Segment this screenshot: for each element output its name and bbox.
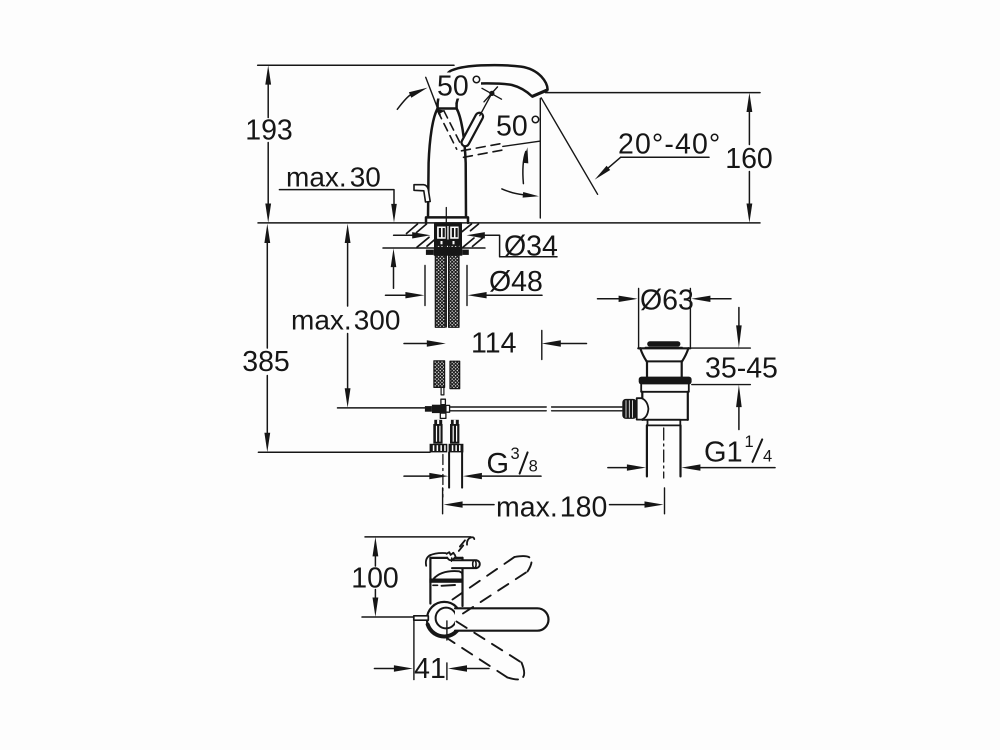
dimension max.300 vertical line [347, 241, 349, 390]
dimension max.180 [442, 488, 444, 514]
svg-text:193: 193 [245, 115, 293, 147]
drain upper body [646, 361, 648, 376]
drain main body [641, 392, 643, 420]
dimension 160 top arrow [747, 93, 753, 112]
braided hose left [435, 241, 445, 328]
spout [438, 65, 548, 103]
horizontal pop-up rod [450, 407, 622, 411]
pop-up tee bottom stub [440, 413, 446, 418]
handle lever [462, 113, 484, 147]
hose connector crimp right [451, 420, 459, 424]
faucet base flange [426, 217, 468, 223]
svg-text:385: 385 [242, 346, 290, 378]
dimension max.300 top arrow [345, 224, 351, 243]
dimension Ø63 [638, 289, 640, 349]
faucet body outline [426, 103, 468, 223]
drain o-ring [639, 377, 692, 385]
axis cross mark [482, 88, 502, 99]
pop-up tee right face [446, 405, 450, 412]
threaded shank outline [435, 223, 461, 248]
reference line top (193 upper datum) [258, 64, 454, 66]
rod-level reference line (max.300 lower datum) [338, 407, 426, 409]
plan lever base notch [447, 558, 455, 561]
faucet collar line [438, 107, 457, 110]
dimension 385 bottom arrow [264, 433, 270, 452]
shank lower dark band [435, 240, 461, 246]
plan lever dashed down-right [445, 622, 525, 680]
plan lever solid [455, 608, 549, 630]
svg-text:114: 114 [471, 328, 517, 360]
dimension max.30 down arrow [391, 204, 397, 223]
svg-text:100: 100 [351, 562, 399, 594]
svg-text:1: 1 [745, 433, 754, 451]
shank fitting right [449, 226, 459, 240]
dimension 193 vertical line [267, 82, 269, 205]
dimension 41 [413, 621, 415, 680]
escutcheon outer circle [427, 602, 462, 637]
35-45 upper extension line [690, 347, 750, 349]
drain ring band [641, 384, 689, 391]
dimension G1 1/4 [608, 467, 628, 469]
svg-text:35-45: 35-45 [705, 353, 778, 385]
spout swivel arc arrow [502, 189, 524, 195]
shank fitting left [436, 226, 446, 240]
dashed handle position inside body [438, 111, 462, 149]
spout swung position line [541, 98, 597, 195]
G3/8 threaded tube [448, 452, 450, 487]
dimension 160 vertical line [748, 110, 750, 206]
deck underside line [383, 247, 485, 249]
hose stub left (after break) [434, 361, 445, 388]
dimension 160 bottom arrow [747, 204, 753, 223]
pop-up tee top stub [441, 399, 446, 405]
leader arrow 20-40 [595, 166, 611, 180]
label 50 degrees first halo [436, 73, 481, 99]
hose-end reference line (385 lower datum) [258, 451, 430, 453]
pop-up rod lever at body [414, 185, 430, 202]
handle axis line [480, 92, 493, 116]
max.30 reference line [279, 190, 394, 206]
shank centre dip tube [445, 226, 447, 327]
dimension 193 bottom arrow [265, 204, 271, 223]
dimension 100 bottom arrow [373, 598, 379, 618]
dimension G3/8 arrows [404, 475, 430, 477]
plan dome arc [434, 571, 462, 579]
plan left tab [414, 616, 429, 620]
plan view: 100 upper reference line [365, 536, 471, 538]
dimension 385 top arrow [264, 224, 270, 243]
drain body bottom lip [642, 419, 688, 421]
dimension 100 top arrow [373, 537, 379, 557]
svg-text:max.30: max.30 [286, 162, 381, 193]
leader line 20-40 [621, 156, 709, 158]
drain plug knob [647, 341, 680, 346]
plan dark band [429, 579, 462, 583]
svg-text:Ø63: Ø63 [640, 284, 694, 316]
dimension Ø34 [394, 234, 413, 236]
plan lever dashed up-right [453, 556, 532, 613]
svg-text:G1: G1 [704, 437, 743, 469]
dimension Ø48 [424, 266, 426, 306]
svg-text:160: 160 [725, 143, 773, 175]
dimension 35-45 [692, 384, 751, 386]
handle swing arc arrow [523, 152, 526, 184]
stub tail rod [441, 387, 444, 395]
base centerline [445, 208, 447, 227]
deck / countertop line [258, 222, 760, 224]
svg-text:8: 8 [529, 458, 538, 476]
spout axis vertical line [539, 99, 541, 218]
svg-text:max.300: max.300 [291, 305, 400, 336]
rod boss [637, 398, 649, 419]
knurled rod knob [622, 399, 636, 419]
svg-text:20°-40°: 20°-40° [618, 129, 721, 161]
spout-tip datum line (160 upper) [546, 92, 761, 94]
drain neck [640, 348, 646, 361]
50 degree curved leader [397, 94, 411, 109]
escutcheon inner circle [436, 608, 457, 629]
plan spout body [430, 558, 462, 606]
drain tailpipe [646, 425, 648, 476]
escutcheon thick bottom arc [428, 624, 461, 637]
shank top dark band [435, 223, 461, 226]
union nut right [449, 444, 464, 453]
dark wedge under collar [437, 109, 445, 114]
mounting flange nut [434, 248, 463, 256]
spout tip face [533, 90, 547, 96]
plan lever side solid [452, 560, 480, 568]
plan lever raised dashed [459, 537, 475, 551]
svg-text:G: G [487, 448, 510, 480]
drain flange top [638, 347, 690, 349]
50 degree slanted datum line [426, 77, 441, 115]
open-handle axis line [503, 141, 540, 146]
dimension 385 vertical line [266, 241, 268, 435]
svg-text:41: 41 [414, 653, 446, 685]
dashed open-handle position right [462, 143, 504, 157]
dimension max.30 up arrow with tail [391, 248, 397, 267]
svg-text:3: 3 [511, 445, 520, 463]
dimension 114 [404, 343, 427, 345]
dimension max.300 bottom arrow [345, 388, 351, 407]
braided hose right [449, 241, 459, 328]
hose stub right (after break) [450, 361, 460, 388]
plan view: 100 lower reference line [362, 616, 413, 618]
tube centerline [442, 455, 444, 498]
deck hatching [407, 224, 485, 247]
svg-text:Ø34: Ø34 [504, 230, 558, 262]
tailpipe centerline [663, 428, 665, 478]
svg-text:max.180: max.180 [496, 492, 607, 524]
union nut left [430, 444, 448, 453]
hose connector crimp left [434, 420, 442, 424]
dimension 100 line [374, 554, 376, 600]
svg-text:50°: 50° [496, 111, 541, 143]
svg-text:50°: 50° [437, 70, 482, 102]
svg-text:Ø48: Ø48 [489, 266, 543, 298]
svg-text:4: 4 [763, 448, 772, 466]
pop-up tee block [432, 405, 446, 413]
plan spout top curls [426, 552, 456, 566]
dimension 193 top arrow [265, 65, 271, 84]
plan band ticks [433, 584, 438, 586]
